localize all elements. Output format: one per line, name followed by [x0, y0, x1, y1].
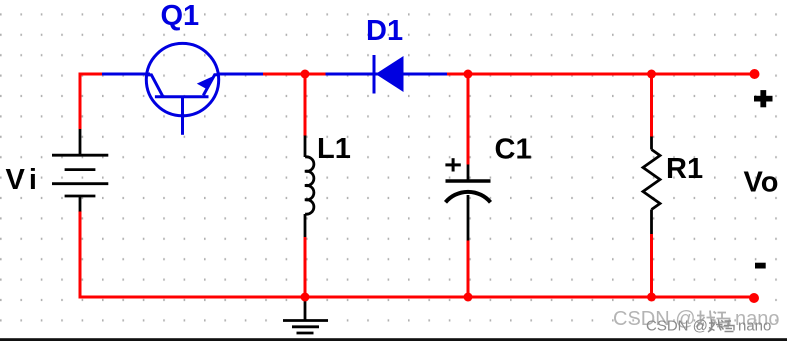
wire: red segment from Q1 to L1 node — [263, 73, 326, 76]
svg-text:nano: nano — [738, 318, 771, 335]
node: C1 bottom junction — [464, 293, 473, 302]
wire: red L1 branch lower — [304, 237, 307, 297]
label D1 — [366, 15, 403, 47]
wire: left vertical red (lower part, input rail) — [79, 211, 82, 299]
node: R1 top junction — [647, 70, 656, 79]
diode D1 — [374, 55, 404, 94]
inductor L1 — [305, 136, 314, 238]
label Vi — [6, 164, 42, 196]
resistor R1 — [643, 137, 660, 235]
wire: bottom horizontal red rail — [79, 296, 755, 299]
svg-text:Q1: Q1 — [161, 0, 200, 32]
node: L1 top junction — [301, 70, 310, 79]
svg-text:L1: L1 — [317, 133, 351, 165]
svg-text:CSDN @: CSDN @ — [646, 318, 708, 335]
label L1 — [317, 133, 351, 165]
node: ground junction — [301, 293, 310, 302]
bottom separator line — [0, 338, 787, 341]
wire: top red rail from D1 node to output terminal — [447, 73, 755, 76]
label Vo — [744, 167, 779, 199]
output plus sign — [754, 90, 773, 107]
node: C1 top junction — [464, 70, 473, 79]
output minus sign — [755, 263, 766, 269]
label C1 — [495, 133, 532, 165]
wire: red L1 branch upper — [304, 74, 307, 136]
wire: top-left horizontal red segment from input corner — [80, 73, 103, 76]
watermark CSDN small — [646, 318, 771, 335]
svg-text:Vi: Vi — [6, 164, 42, 196]
wire: left vertical red (upper part, input rail) — [79, 73, 82, 130]
wire: red C1 branch upper — [467, 74, 470, 165]
wire: blue emitter lead into Q1 — [102, 73, 150, 76]
wire: blue segment through diode D1 — [326, 73, 448, 76]
svg-text:R1: R1 — [666, 153, 703, 185]
wire: red R1 branch upper — [650, 74, 653, 137]
battery Vi (voltage source) — [52, 129, 108, 212]
label Q1 — [161, 0, 200, 32]
label R1 — [666, 153, 703, 185]
svg-text:C1: C1 — [495, 133, 532, 165]
wire: blue collector lead out of Q1 — [218, 73, 263, 76]
wire: red C1 branch lower — [467, 241, 470, 298]
svg-text:D1: D1 — [366, 15, 403, 47]
capacitor C1 — [446, 165, 491, 241]
node: R1 bottom junction — [647, 293, 656, 302]
wire: red R1 branch lower — [650, 234, 653, 297]
watermark CSDN large — [613, 308, 780, 330]
node: positive output terminal — [750, 69, 760, 79]
node: negative output terminal — [749, 293, 759, 303]
polarity plus mark of C1 — [445, 158, 460, 171]
ground — [283, 301, 328, 333]
svg-text:Vo: Vo — [744, 167, 779, 199]
transistor Q1 — [146, 43, 218, 134]
